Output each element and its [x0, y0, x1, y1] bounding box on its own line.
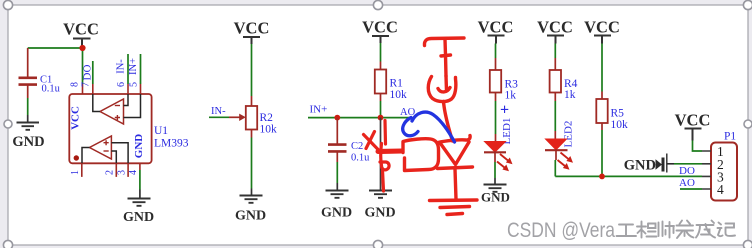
resistor R4 1k	[550, 58, 578, 101]
power VCC (P1)	[675, 111, 711, 141]
svg-text:GND: GND	[133, 134, 145, 159]
annotation red phototransistor sketch (top)	[424, 38, 464, 141]
power VCC (R1)	[362, 18, 398, 44]
U1 pin numbers bottom 1 2 3 4	[70, 170, 139, 175]
svg-text:IN-: IN-	[211, 106, 226, 117]
LED LED2	[545, 139, 573, 170]
resistor R1 10k	[375, 62, 407, 102]
svg-text:LM393: LM393	[154, 138, 189, 150]
svg-text:LED2: LED2	[563, 121, 575, 148]
wire R2 to ground	[251, 138, 253, 189]
svg-text:R1: R1	[390, 78, 404, 90]
net label IN+ (U1 pin 5)	[128, 54, 141, 84]
svg-text:VCC: VCC	[537, 18, 573, 37]
svg-text:VCC: VCC	[362, 18, 398, 37]
svg-text:10k: 10k	[260, 124, 278, 136]
ground (C1)	[12, 115, 44, 150]
wire VCC to R5	[601, 44, 603, 92]
capacitor C2	[328, 118, 370, 164]
wire R5 to DO line	[601, 130, 603, 176]
resistor R3 1k	[490, 58, 518, 102]
junction dot DO	[599, 174, 605, 180]
wire R1 node to ground	[380, 118, 382, 190]
svg-text:10k: 10k	[611, 119, 629, 131]
ground (R2)	[235, 189, 266, 224]
svg-text:VCC: VCC	[675, 111, 711, 130]
power VCC (R5)	[584, 18, 620, 44]
svg-text:7: 7	[81, 82, 92, 87]
svg-text:+: +	[500, 102, 509, 119]
wire VCC to C1	[28, 47, 83, 49]
svg-text:VCC: VCC	[63, 20, 99, 39]
svg-text:GND: GND	[364, 206, 395, 221]
wire VCC to U1 pin 8	[82, 48, 84, 84]
svg-text:GND: GND	[321, 206, 352, 221]
wire IN+ / AO horizontal	[308, 117, 412, 119]
svg-text:1k: 1k	[564, 89, 576, 101]
svg-text:LED1: LED1	[501, 118, 513, 145]
wire R3 to LED1	[495, 101, 497, 134]
net label IN- (R2 wiper)	[209, 106, 229, 117]
U1 top pin stubs	[83, 84, 141, 94]
svg-text:VCC: VCC	[234, 19, 270, 38]
wire U1 pin 4 to ground	[139, 170, 141, 190]
svg-text:GND: GND	[12, 134, 44, 150]
U1 pin numbers top 8 7 6 5	[70, 82, 140, 87]
wire R1 to IN+ node	[380, 101, 382, 118]
svg-text:10k: 10k	[390, 89, 408, 101]
junction dot VCC	[79, 45, 85, 51]
svg-text:4: 4	[128, 170, 139, 175]
ground (LED1)	[481, 178, 510, 205]
svg-text:1k: 1k	[505, 90, 517, 102]
net label DO (U1 pin 7)	[82, 61, 94, 84]
svg-text:3: 3	[116, 170, 127, 175]
wire C2 to ground	[336, 162, 338, 183]
svg-text:R5: R5	[611, 108, 625, 120]
annotation red transistor sketch (left)	[364, 121, 403, 192]
wire VCC to P1 pin 1	[693, 141, 703, 152]
ground (U1)	[123, 190, 154, 226]
potentiometer R2 10k	[229, 96, 277, 138]
svg-text:6: 6	[116, 82, 127, 87]
svg-text:0.1u: 0.1u	[42, 84, 61, 95]
svg-text:GND: GND	[624, 158, 656, 174]
resistor R5 10k	[596, 92, 628, 132]
svg-text:GND: GND	[481, 190, 510, 205]
svg-text:R2: R2	[260, 112, 274, 124]
svg-text:GND: GND	[123, 210, 154, 225]
ground port GND (P1 pin 2)	[624, 154, 674, 174]
power VCC (R2)	[234, 19, 270, 45]
svg-text:DO: DO	[679, 165, 695, 177]
junction dot R1	[378, 115, 384, 121]
wire DO line	[555, 175, 702, 177]
svg-text:CSDN @Vera: CSDN @Vera	[507, 218, 615, 242]
watermark CJK glyph strokes	[617, 221, 736, 239]
power VCC (U1 supply)	[63, 20, 99, 48]
net label IN- (U1 pin 6)	[116, 54, 129, 84]
capacitor C1	[19, 48, 61, 98]
wire C1 to ground	[27, 98, 29, 115]
svg-text:8: 8	[70, 82, 81, 87]
wire VCC to R2	[251, 44, 253, 96]
svg-text:VCC: VCC	[584, 18, 620, 37]
wire AO to P1	[680, 188, 702, 190]
svg-text:5: 5	[129, 82, 140, 87]
annotation red ground sketch	[430, 200, 478, 215]
svg-text:IN+: IN+	[310, 104, 328, 116]
annotation red loop sketch	[403, 139, 439, 171]
connector P1	[702, 131, 737, 201]
svg-text:DO: DO	[82, 65, 94, 81]
svg-text:1: 1	[70, 170, 81, 175]
power VCC (R3)	[478, 18, 514, 44]
svg-text:GND: GND	[235, 209, 266, 224]
svg-text:C2: C2	[351, 141, 363, 152]
ground (C2)	[321, 183, 352, 221]
svg-text:4: 4	[717, 182, 724, 197]
svg-text:IN-: IN-	[116, 59, 127, 74]
svg-text:IN+: IN+	[128, 58, 139, 75]
power VCC (R4)	[537, 18, 573, 44]
annotation blue arrow sketch	[403, 112, 455, 142]
wire LED1 to ground	[494, 162, 496, 178]
junction dot C2	[334, 115, 340, 121]
svg-text:2: 2	[105, 170, 116, 175]
wire R4 to LED2	[554, 101, 556, 131]
annotation red diode sketch	[438, 136, 473, 200]
op-amp U1 LM393	[69, 94, 188, 163]
svg-text:VCC: VCC	[70, 106, 82, 130]
svg-text:AO: AO	[679, 177, 695, 189]
wire GND port to P1 pin 2	[674, 163, 702, 165]
wire VCC to R4	[554, 44, 556, 59]
svg-text:U1: U1	[154, 125, 168, 137]
wire VCC to R1	[380, 43, 382, 62]
svg-text:P1: P1	[724, 131, 736, 143]
ground (divider node)	[364, 191, 395, 221]
LED LED1	[484, 142, 513, 172]
svg-text:0.1u: 0.1u	[351, 153, 370, 164]
U1 bottom pin stubs	[82, 163, 140, 177]
wire LED2 to DO line	[554, 160, 556, 176]
svg-text:VCC: VCC	[478, 18, 514, 37]
wire VCC to R3	[495, 44, 497, 59]
